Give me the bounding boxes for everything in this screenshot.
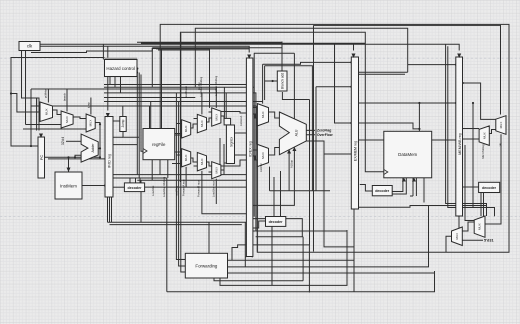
wire bottom loops [227, 206, 435, 292]
wire clk drop IFID [107, 46, 109, 110]
wire idex left pins [221, 112, 247, 167]
svg-text:jump: jump [87, 102, 91, 109]
mux E2 [257, 144, 268, 166]
wire jump out [123, 132, 139, 138]
svg-text:readData1: readData1 [184, 85, 188, 98]
wire mux2 to mux3 [73, 117, 86, 119]
wire adder out [98, 147, 100, 149]
svg-text:Jump: Jump [121, 119, 125, 127]
wire y252 up at 433 [0, 0, 1, 1]
decoder4 [266, 217, 286, 227]
svg-text:LoadUse mux: LoadUse mux [212, 180, 216, 197]
svg-text:LoadUse: LoadUse [151, 185, 155, 196]
IF/ID reg [105, 117, 113, 198]
Jump box [120, 117, 126, 132]
wire PC out to instmem [45, 155, 101, 172]
svg-text:Adder: Adder [91, 143, 95, 153]
decoder ID [124, 183, 144, 192]
svg-text:decoder: decoder [482, 186, 497, 190]
svg-text:MUX: MUX [200, 120, 204, 127]
svg-text:Forwarding: Forwarding [195, 264, 218, 269]
wire ALU zero/ovf [306, 130, 315, 134]
wire datamem out [432, 139, 456, 141]
mux R2 [479, 126, 489, 145]
Branch add [277, 71, 287, 91]
wire memwb bottom [458, 216, 460, 228]
mux B3 [212, 162, 221, 179]
wire branch add out [253, 92, 310, 205]
regFile [143, 129, 175, 160]
svg-text:regDst: regDst [197, 82, 201, 90]
svg-text:regFile: regFile [152, 142, 166, 147]
wire datamem bottom pins [410, 178, 424, 203]
wire right top horizontals [263, 62, 352, 190]
wire exmem to datamem left [359, 139, 384, 141]
wire IFID out to decoder verticals [113, 178, 435, 292]
wire verticals x309 [310, 44, 352, 245]
svg-text:ALUsrcA: ALUsrcA [239, 115, 243, 126]
svg-text:5'd31: 5'd31 [484, 239, 494, 243]
svg-text:MUX: MUX [261, 152, 265, 159]
wire ALU out [306, 141, 354, 247]
mux T3 [212, 108, 221, 126]
svg-text:ALUop: ALUop [290, 160, 294, 168]
mux pc2 [61, 111, 73, 128]
wire regfile clk stub [138, 73, 140, 179]
wire bundle x141 from hazard [137, 69, 252, 223]
MEM/WB reg [456, 57, 463, 216]
svg-text:MUX: MUX [499, 122, 503, 129]
wire decoder1 left in [113, 186, 124, 188]
wire ID cluster feeds [113, 135, 182, 175]
wire pc+4 under [48, 158, 105, 160]
svg-text:MUX: MUX [184, 154, 188, 161]
wire R1 out down [485, 134, 501, 224]
wire B muxes chain [172, 155, 249, 214]
svg-text:MUX: MUX [184, 125, 188, 132]
InstMem [55, 172, 82, 199]
wire hazard left long [11, 58, 104, 147]
svg-text:MUX: MUX [89, 120, 93, 127]
mux T2 [197, 114, 206, 132]
svg-text:LoadUse InfoReg: LoadUse InfoReg [162, 176, 166, 197]
wire forwarding left ins [181, 33, 186, 272]
svg-text:PC: PC [39, 155, 44, 161]
blocks [19, 42, 506, 279]
Forwarding [185, 253, 227, 278]
ALU [279, 112, 306, 155]
wire clk lineB [31, 46, 249, 114]
wire mux1 to mux2 [23, 110, 86, 129]
svg-text:Branch add: Branch add [281, 73, 285, 90]
wire regfile top pins [150, 87, 229, 128]
svg-text:ForwardA mux: ForwardA mux [182, 179, 186, 196]
wire ALU lower vert [253, 154, 324, 228]
svg-text:JAL: JAL [499, 142, 503, 147]
svg-text:MUX: MUX [261, 111, 265, 118]
wire fwd out up [232, 222, 309, 292]
concat box [224, 118, 231, 125]
clk [19, 42, 40, 51]
wire bundle down left of forwarding [176, 93, 185, 260]
svg-text:MEM/WB reg: MEM/WB reg [458, 133, 462, 154]
wire clk drop hazard [102, 44, 104, 59]
tiny MUX labels [44, 108, 503, 239]
svg-text:ALU: ALU [295, 129, 299, 136]
wire ALU down arrow [253, 230, 256, 232]
mux WB B1 [474, 216, 485, 237]
mux T1 [182, 120, 191, 138]
wire clk drop EXMEM [353, 44, 355, 50]
clock triangles on regfile/datamem [143, 149, 388, 175]
wire to jump [31, 106, 123, 117]
wire regfile bottom pins [152, 160, 168, 180]
wire clk to PC [22, 51, 40, 131]
wire signex out [235, 133, 247, 155]
wire top loop y32 [180, 32, 383, 182]
svg-text:SignEx: SignEx [230, 137, 234, 148]
wire decoder4 tops [246, 171, 347, 257]
svg-text:MUX: MUX [478, 223, 482, 230]
wire decoder1 out down [145, 186, 249, 188]
svg-text:pcWrite: pcWrite [44, 89, 48, 98]
svg-text:ForwardB mux: ForwardB mux [197, 179, 201, 197]
wire hazard shadow band [105, 57, 138, 59]
svg-text:ZeroFlag: ZeroFlag [317, 128, 331, 132]
svg-text:ID/EX reg: ID/EX reg [248, 141, 252, 157]
svg-text:decoder: decoder [375, 189, 390, 193]
PC [38, 137, 45, 178]
wire 32d4 [66, 140, 81, 142]
svg-text:MUX: MUX [200, 158, 204, 165]
mux pc3 [86, 114, 95, 132]
svg-text:InstMem: InstMem [60, 184, 77, 189]
svg-text:Hazard control: Hazard control [106, 66, 135, 71]
wire verticals right of branch [270, 53, 314, 191]
wire T muxes chain [172, 112, 228, 134]
svg-text:MUX: MUX [482, 132, 486, 139]
wire exmem right y103 [359, 103, 474, 207]
svg-text:OverFlow: OverFlow [317, 133, 333, 137]
svg-text:MUX: MUX [65, 116, 69, 123]
clock arrows [39, 54, 461, 173]
wire E2 out to ALU [269, 148, 280, 156]
wire bottom right mux feeds [446, 145, 483, 252]
svg-text:DataMem: DataMem [398, 152, 417, 157]
svg-text:32'd4: 32'd4 [61, 137, 65, 145]
wire top loop y28 [195, 28, 456, 87]
wire long horizontals mid [104, 53, 294, 216]
wire clk lineA [40, 42, 459, 128]
wire y72 step into x407 [359, 72, 408, 74]
svg-text:ALUSrc: ALUSrc [259, 162, 263, 172]
wire R2 to R1 [489, 130, 496, 134]
page boundary dashed lines [0, 58, 520, 216]
svg-text:MemToReg: MemToReg [481, 144, 485, 159]
mux E1 [257, 104, 268, 126]
signex [226, 125, 234, 164]
wire mux3 out to PC loop [95, 123, 100, 159]
wire decoder3 area [462, 187, 483, 216]
wire exmem right y123 [359, 123, 420, 129]
adder [81, 134, 98, 162]
svg-text:MUX: MUX [214, 167, 218, 174]
svg-text:clk: clk [27, 44, 33, 49]
wire instmem out [82, 185, 105, 187]
wire step small near clk [31, 49, 210, 59]
mux WB B2 [452, 227, 463, 246]
decoder MEM [372, 186, 392, 196]
mux B1 [182, 149, 191, 167]
svg-text:branch: branch [63, 93, 67, 101]
mux pc1 [40, 102, 53, 122]
svg-text:MUX: MUX [44, 108, 48, 115]
wire forwarding top in [108, 197, 251, 253]
tiny control labels [44, 75, 294, 197]
datamem write arrows [287, 147, 416, 182]
svg-text:EX/MEM reg: EX/MEM reg [354, 141, 358, 161]
wire clk aux [26, 51, 37, 131]
mux R1 [496, 116, 506, 135]
wire verticals x445 [446, 44, 495, 216]
wire top loop y24 [160, 24, 509, 252]
Hazard control [105, 60, 138, 77]
svg-text:LoadUse InfoReg: LoadUse InfoReg [214, 75, 218, 96]
svg-text:decoder: decoder [269, 220, 284, 224]
wire y202 long [359, 206, 487, 208]
wire memwb right cluster [462, 83, 496, 129]
svg-text:IF/ID reg: IF/ID reg [108, 154, 112, 168]
mux B2 [197, 153, 206, 171]
wire idex right to E muxes [253, 108, 258, 161]
svg-text:MUX: MUX [214, 114, 218, 121]
wire ifid right upper [113, 120, 120, 122]
wire decoder2 out [392, 178, 406, 194]
wire verticals x313 [314, 25, 501, 251]
DataMem [384, 131, 432, 178]
wire exmem to decoder2 [360, 185, 373, 192]
svg-text:MUX: MUX [455, 233, 459, 240]
wire branch add input [265, 42, 282, 82]
decoder WB [479, 182, 500, 192]
ID/EX reg [246, 58, 253, 257]
svg-text:readReg: readReg [175, 185, 179, 196]
wire E1 out to ALU [269, 112, 280, 118]
svg-text:decoder: decoder [128, 186, 143, 190]
EX/MEM reg [351, 57, 358, 209]
